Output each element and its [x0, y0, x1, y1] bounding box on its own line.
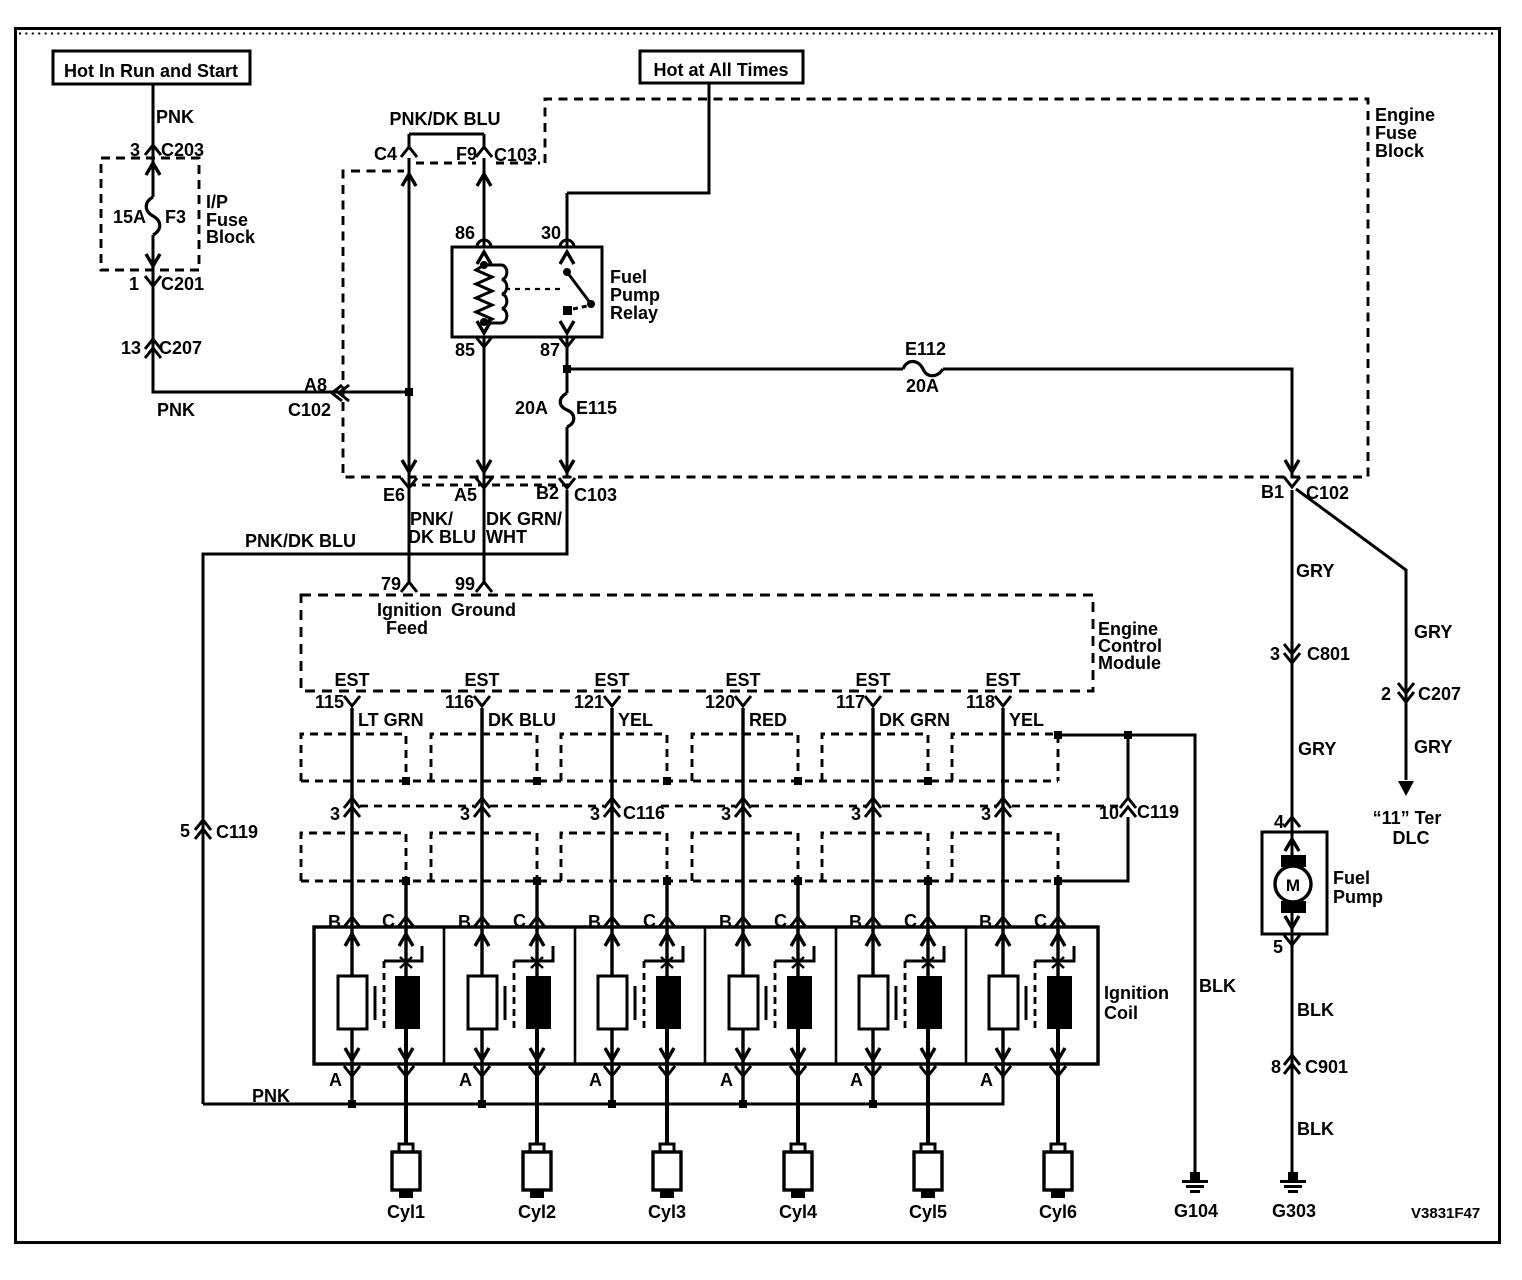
svg-text:Pump: Pump [1333, 887, 1383, 907]
svg-text:3: 3 [981, 804, 991, 824]
svg-text:C103: C103 [494, 145, 537, 165]
svg-text:8: 8 [1271, 1057, 1281, 1077]
svg-text:C: C [513, 911, 526, 931]
svg-text:3: 3 [1270, 644, 1280, 664]
svg-text:Cyl1: Cyl1 [387, 1202, 425, 1222]
svg-text:BLK: BLK [1297, 1000, 1334, 1020]
svg-text:C4: C4 [374, 144, 397, 164]
svg-text:YEL: YEL [1009, 710, 1044, 730]
svg-text:30: 30 [541, 223, 561, 243]
svg-text:A: A [720, 1070, 733, 1090]
svg-text:Cyl5: Cyl5 [909, 1202, 947, 1222]
svg-text:B: B [328, 912, 341, 932]
svg-text:Fuel: Fuel [610, 267, 647, 287]
svg-text:Fuse: Fuse [1375, 123, 1417, 143]
svg-text:C119: C119 [216, 822, 258, 842]
svg-text:Pump: Pump [610, 285, 660, 305]
svg-text:C: C [643, 911, 656, 931]
svg-text:1: 1 [129, 274, 139, 294]
svg-text:C203: C203 [161, 140, 204, 160]
svg-text:WHT: WHT [486, 527, 527, 547]
svg-text:E112: E112 [905, 339, 946, 359]
svg-text:DK BLU: DK BLU [408, 527, 476, 547]
svg-text:3: 3 [330, 804, 340, 824]
svg-text:B1: B1 [1261, 482, 1284, 502]
svg-text:5: 5 [180, 821, 190, 841]
svg-text:C: C [774, 911, 787, 931]
svg-text:EST: EST [334, 670, 369, 690]
svg-text:2: 2 [1381, 684, 1391, 704]
svg-text:C119: C119 [1137, 802, 1179, 822]
svg-text:20A: 20A [906, 376, 939, 396]
svg-text:Cyl3: Cyl3 [648, 1202, 686, 1222]
svg-text:3: 3 [130, 140, 140, 160]
svg-text:GRY: GRY [1414, 737, 1452, 757]
svg-text:B: B [588, 912, 601, 932]
svg-text:PNK: PNK [157, 400, 195, 420]
svg-text:Hot In Run and Start: Hot In Run and Start [64, 61, 238, 81]
svg-text:GRY: GRY [1298, 739, 1336, 759]
svg-text:Cyl6: Cyl6 [1039, 1202, 1077, 1222]
svg-text:5: 5 [1273, 937, 1283, 957]
svg-text:G303: G303 [1272, 1201, 1316, 1221]
svg-text:EST: EST [725, 670, 760, 690]
svg-text:EST: EST [985, 670, 1020, 690]
svg-text:117: 117 [836, 692, 865, 712]
svg-text:B: B [849, 912, 862, 932]
svg-text:B2: B2 [536, 483, 559, 503]
svg-text:3: 3 [590, 804, 600, 824]
svg-text:M: M [1286, 876, 1300, 895]
svg-text:A: A [329, 1070, 342, 1090]
svg-text:116: 116 [445, 692, 474, 712]
svg-text:PNK: PNK [156, 107, 194, 127]
svg-text:RED: RED [749, 710, 787, 730]
svg-text:118: 118 [966, 692, 995, 712]
svg-text:DK GRN/: DK GRN/ [486, 509, 562, 529]
svg-text:PNK/: PNK/ [410, 509, 453, 529]
svg-text:EST: EST [464, 670, 499, 690]
svg-text:A8: A8 [304, 375, 327, 395]
svg-text:C: C [904, 911, 917, 931]
svg-text:120: 120 [705, 692, 735, 712]
svg-text:85: 85 [455, 340, 475, 360]
svg-text:EST: EST [594, 670, 629, 690]
svg-text:DK GRN: DK GRN [879, 710, 950, 730]
svg-text:3: 3 [851, 804, 861, 824]
svg-text:PNK/DK BLU: PNK/DK BLU [245, 531, 356, 551]
svg-text:BLK: BLK [1199, 976, 1236, 996]
svg-text:Module: Module [1098, 653, 1161, 673]
svg-text:DK BLU: DK BLU [488, 710, 556, 730]
svg-text:A: A [459, 1070, 472, 1090]
svg-text:Block: Block [1375, 141, 1425, 161]
svg-text:Relay: Relay [610, 303, 658, 323]
svg-text:C201: C201 [161, 274, 204, 294]
svg-text:87: 87 [540, 340, 560, 360]
svg-text:DLC: DLC [1393, 828, 1430, 848]
svg-text:F9: F9 [456, 144, 477, 164]
svg-text:YEL: YEL [618, 710, 653, 730]
svg-text:C207: C207 [159, 338, 202, 358]
svg-text:E115: E115 [576, 398, 617, 418]
svg-text:BLK: BLK [1297, 1119, 1334, 1139]
svg-text:PNK/DK BLU: PNK/DK BLU [390, 109, 501, 129]
svg-text:C801: C801 [1307, 644, 1350, 664]
svg-text:“11” Ter: “11” Ter [1373, 808, 1442, 828]
svg-text:A5: A5 [454, 485, 477, 505]
svg-text:EST: EST [855, 670, 890, 690]
svg-text:I/P: I/P [206, 192, 228, 212]
svg-text:Fuel: Fuel [1333, 868, 1370, 888]
svg-text:79: 79 [381, 574, 401, 594]
svg-text:115: 115 [315, 692, 344, 712]
svg-text:Ignition: Ignition [1104, 983, 1169, 1003]
svg-text:B: B [979, 912, 992, 932]
svg-text:C116: C116 [623, 803, 665, 823]
svg-text:10: 10 [1099, 803, 1119, 823]
svg-text:C102: C102 [288, 400, 331, 420]
svg-text:C103: C103 [574, 485, 617, 505]
svg-text:Ignition: Ignition [377, 600, 442, 620]
svg-text:Ground: Ground [451, 600, 516, 620]
svg-text:B: B [458, 912, 471, 932]
svg-text:20A: 20A [515, 398, 548, 418]
svg-text:E6: E6 [383, 485, 405, 505]
svg-text:V3831F47: V3831F47 [1411, 1205, 1480, 1222]
svg-text:99: 99 [455, 574, 475, 594]
svg-text:3: 3 [460, 804, 470, 824]
svg-text:A: A [589, 1070, 602, 1090]
svg-text:G104: G104 [1174, 1201, 1218, 1221]
svg-text:Hot at All Times: Hot at All Times [653, 60, 788, 80]
svg-text:A: A [980, 1070, 993, 1090]
svg-text:C: C [382, 911, 395, 931]
svg-text:3: 3 [721, 804, 731, 824]
svg-text:C901: C901 [1305, 1057, 1348, 1077]
svg-text:PNK: PNK [252, 1086, 290, 1106]
svg-text:13: 13 [121, 338, 141, 358]
svg-text:Cyl4: Cyl4 [779, 1202, 817, 1222]
svg-text:86: 86 [455, 223, 475, 243]
svg-text:F3: F3 [165, 207, 186, 227]
svg-text:GRY: GRY [1414, 622, 1452, 642]
svg-text:Coil: Coil [1104, 1003, 1138, 1023]
svg-text:121: 121 [574, 692, 604, 712]
svg-text:Feed: Feed [386, 618, 428, 638]
svg-text:LT GRN: LT GRN [358, 710, 424, 730]
svg-text:A: A [850, 1070, 863, 1090]
svg-text:C102: C102 [1306, 483, 1349, 503]
svg-text:4: 4 [1274, 812, 1284, 832]
svg-text:Block: Block [206, 227, 256, 247]
svg-text:GRY: GRY [1296, 561, 1334, 581]
svg-text:Cyl2: Cyl2 [518, 1202, 556, 1222]
svg-text:C: C [1034, 911, 1047, 931]
svg-text:C207: C207 [1418, 684, 1461, 704]
svg-text:15A: 15A [113, 207, 146, 227]
svg-text:Engine: Engine [1375, 105, 1435, 125]
svg-text:B: B [719, 912, 732, 932]
